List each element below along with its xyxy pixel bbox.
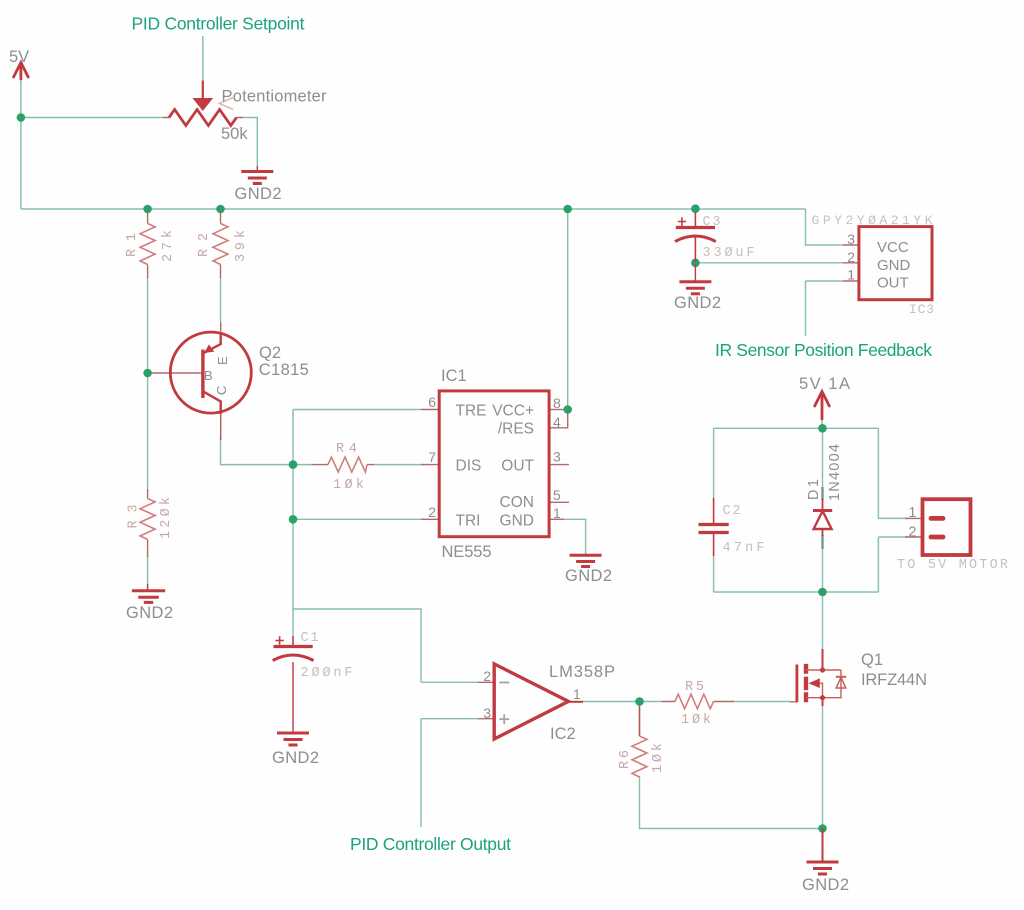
op-amp plus sign <box>499 714 509 724</box>
mosfet Q1 body diode triangle <box>836 677 846 688</box>
svg-text:R3: R3 <box>127 505 142 529</box>
diode D1 triangle <box>814 511 832 529</box>
svg-text:2: 2 <box>483 668 491 684</box>
node Q1 source gnd <box>818 824 827 833</box>
stub pot pins <box>163 117 243 119</box>
stub R5 pins <box>662 701 735 703</box>
svg-text:3: 3 <box>553 449 561 465</box>
wire loop to Q1 drain <box>822 592 824 649</box>
stub R2 pins <box>220 209 222 278</box>
svg-text:R2: R2 <box>197 233 212 257</box>
wire 5V1A to top loop <box>821 418 823 428</box>
wire Q2 collector to node <box>221 437 294 465</box>
wire TRI row <box>293 518 426 520</box>
ground GND2 at Q1 source <box>807 829 839 875</box>
svg-text:C1: C1 <box>301 631 319 646</box>
svg-text:2: 2 <box>847 249 855 265</box>
mosfet Q1 drain link <box>806 670 841 698</box>
wire C1 top corner to opamp column <box>293 609 421 682</box>
resistor R5 10k <box>675 694 714 709</box>
node 5V1A loop <box>818 424 827 433</box>
svg-text:E: E <box>215 356 230 365</box>
stub opamp output <box>569 701 583 703</box>
svg-text:2: 2 <box>908 525 916 541</box>
resistor R2 39k <box>213 224 228 265</box>
mosfet Q1 arrow tail <box>818 683 823 698</box>
wire bottom loop <box>714 591 879 593</box>
svg-text:Q2: Q2 <box>259 344 281 362</box>
wire IC3 OUT down to IR label <box>806 281 844 336</box>
svg-text:OUT: OUT <box>877 275 909 292</box>
mosfet Q1 source dot <box>820 695 825 700</box>
svg-text:GND2: GND2 <box>235 185 282 203</box>
svg-text:C2: C2 <box>723 504 741 519</box>
svg-text:PID Controller Setpoint: PID Controller Setpoint <box>132 14 305 34</box>
connector TO 5V MOTOR box <box>923 499 971 555</box>
svg-text:GND2: GND2 <box>272 749 319 767</box>
stub IC3 pins <box>843 245 859 281</box>
svg-text:R5: R5 <box>685 680 704 695</box>
connector IC3 box <box>859 227 932 300</box>
svg-text:1: 1 <box>553 505 561 521</box>
wire D1 column bottom <box>822 549 824 592</box>
wire motor pin2 down <box>878 537 908 592</box>
supply 5V arrow top-left <box>14 63 29 80</box>
resistor R4 10k <box>328 457 367 472</box>
stub opamp inputs <box>478 682 494 718</box>
wire R2 bottom to Q2 <box>220 277 222 322</box>
svg-text:C3: C3 <box>703 215 721 230</box>
svg-text:12Øk: 12Øk <box>159 497 174 539</box>
svg-text:7: 7 <box>428 449 436 465</box>
transistor Q2 emitter <box>203 332 221 354</box>
node Q2 base <box>143 369 152 378</box>
svg-text:1N4004: 1N4004 <box>827 444 843 501</box>
mosfet Q1 channel bars <box>804 664 808 702</box>
resistor R1 27k <box>140 224 155 265</box>
node 5V/pot <box>17 113 26 122</box>
ground GND2 at C1 <box>277 662 309 745</box>
svg-text:VCC+: VCC+ <box>492 403 534 420</box>
svg-text:Potentiometer: Potentiometer <box>222 88 328 106</box>
wire to opamp pin2 <box>421 681 478 683</box>
capacitor C3 330uF <box>675 212 716 262</box>
wire IC1 pin1 to gnd <box>564 519 586 555</box>
svg-text:LM358P: LM358P <box>549 663 615 681</box>
mosfet Q1 arrow <box>809 678 820 688</box>
stub R1 pins <box>147 209 149 278</box>
svg-text:TRE: TRE <box>456 403 487 420</box>
wire pot right to GND <box>242 118 257 167</box>
svg-text:4: 4 <box>553 414 561 430</box>
svg-text:DIS: DIS <box>456 458 482 475</box>
wire D1 column top <box>822 428 824 488</box>
svg-text:B: B <box>204 368 213 383</box>
node opamp out <box>635 697 644 706</box>
op-amp IC2 triangle <box>494 664 568 739</box>
svg-text:6: 6 <box>428 394 436 410</box>
svg-text:3: 3 <box>847 231 855 247</box>
diode D1 pin stubs <box>821 487 823 549</box>
svg-text:39k: 39k <box>234 230 249 262</box>
stub Q2 collector bottom <box>220 402 222 440</box>
svg-text:3: 3 <box>483 705 491 721</box>
potentiometer wiper triangle <box>193 98 214 111</box>
stub motor pins <box>905 518 923 537</box>
connector motor pin bars <box>931 518 943 537</box>
wire C3 to IC3 GND <box>695 262 843 264</box>
wire right loop to motor pin1 <box>878 428 908 518</box>
transistor Q2 emitter arrow <box>204 344 214 353</box>
svg-text:5V: 5V <box>9 48 29 66</box>
svg-text:1Øk: 1Øk <box>681 713 711 728</box>
svg-text:1: 1 <box>573 686 581 702</box>
svg-text:33ØuF: 33ØuF <box>703 246 755 261</box>
svg-text:TO 5V MOTOR: TO 5V MOTOR <box>897 558 1008 573</box>
svg-text:IC1: IC1 <box>441 367 467 385</box>
node bottom loop <box>818 588 827 597</box>
svg-text:27k: 27k <box>161 230 176 262</box>
svg-text:R1: R1 <box>125 233 140 257</box>
resistor R6 10k <box>632 736 647 777</box>
stub R4 pins <box>312 464 375 466</box>
stub IC1 pin1 <box>549 518 564 520</box>
diode D1 anode wire <box>822 499 824 536</box>
wire R4 right to pin7 <box>373 464 426 466</box>
svg-text:C: C <box>214 386 229 395</box>
wire main 5V horizontal rail <box>21 208 806 210</box>
wire vertical node column <box>292 410 294 610</box>
node R2 top <box>216 205 225 214</box>
ground GND2 at R3 <box>132 584 165 602</box>
stub IC1 pin5 <box>549 501 569 503</box>
stub R6 top <box>639 702 641 737</box>
node C3 bottom <box>691 259 700 268</box>
node R1 top <box>143 205 152 214</box>
svg-text:IRFZ44N: IRFZ44N <box>861 671 927 689</box>
svg-text:C1815: C1815 <box>259 361 309 379</box>
potentiometer outline arrow <box>220 98 234 110</box>
node R4/collector <box>289 460 298 469</box>
svg-text:5V 1A: 5V 1A <box>799 375 850 393</box>
ground GND2 at potentiometer <box>241 166 273 184</box>
svg-text:8: 8 <box>553 395 561 411</box>
wire left loop C2 column <box>713 428 715 592</box>
svg-text:IC3: IC3 <box>909 302 934 317</box>
svg-text:CON: CON <box>500 494 534 511</box>
op-amp minus sign <box>499 682 509 684</box>
capacitor C1 200nF <box>273 636 314 661</box>
wire C1 top stub <box>292 609 294 636</box>
svg-text:GND2: GND2 <box>674 294 721 312</box>
wire Q1 source to gnd node <box>822 705 824 829</box>
stub Q2 base wire <box>148 372 202 374</box>
svg-text:GND2: GND2 <box>126 604 173 622</box>
node rail to pin8 <box>563 205 572 214</box>
svg-text:NE555: NE555 <box>442 543 492 561</box>
mosfet Q1 drain dot <box>820 667 825 672</box>
potentiometer setpoint wire <box>202 36 204 81</box>
svg-text:TRI: TRI <box>456 513 481 530</box>
svg-text:GPY2YØA21YK: GPY2YØA21YK <box>812 213 933 228</box>
transistor Q2 base bar <box>201 350 204 398</box>
node C3 top <box>691 204 700 213</box>
wire 5V vertical <box>20 78 22 209</box>
wire top loop horizontal <box>714 427 879 429</box>
svg-text:50k: 50k <box>221 125 248 143</box>
wire R4 left <box>293 464 312 466</box>
wire R5 to Q1 gate <box>733 701 790 703</box>
svg-text:GND: GND <box>500 513 534 530</box>
stub IC1 left pins <box>421 410 439 520</box>
diode D1 cathode bar <box>813 509 832 512</box>
svg-text:47nF: 47nF <box>723 541 765 556</box>
svg-text:PID Controller Output: PID Controller Output <box>350 834 511 854</box>
svg-text:/RES: /RES <box>498 421 534 438</box>
op IC1 NE555 box <box>439 391 549 537</box>
stub IC1 pin4 link <box>549 410 568 428</box>
svg-text:1: 1 <box>847 267 855 283</box>
svg-text:Q1: Q1 <box>861 651 883 669</box>
mosfet Q1 gate plate <box>796 665 799 703</box>
svg-text:GND: GND <box>877 257 911 274</box>
stub Q1 gate <box>790 701 797 703</box>
wire setpoint rail horizontal <box>21 117 163 119</box>
svg-text:1: 1 <box>908 505 916 521</box>
svg-text:1Øk: 1Øk <box>651 743 666 773</box>
wire R6 bottom to gnd node <box>640 776 823 829</box>
mosfet Q1 source pin <box>822 698 824 706</box>
wire rail to IC3 VCC <box>806 209 844 245</box>
svg-text:GND2: GND2 <box>802 876 849 894</box>
svg-text:D1: D1 <box>806 479 822 500</box>
svg-text:IR Sensor Position Feedback: IR Sensor Position Feedback <box>715 340 932 360</box>
mosfet Q1 body diode bar <box>836 676 846 678</box>
mosfet Q1 drain pin <box>822 649 824 670</box>
svg-text:R4: R4 <box>336 442 357 457</box>
transistor Q2 collector <box>203 391 221 414</box>
node pin8/pin4 <box>563 405 572 414</box>
wire opamp pin3 column to output label <box>421 719 478 827</box>
resistor R3 120k <box>140 499 155 540</box>
capacitor C2 47nF <box>699 498 729 556</box>
wire R1 bottom to base node to R3 <box>147 277 149 585</box>
potentiometer wiper stem <box>202 80 204 99</box>
wire opamp out to R5 <box>582 701 662 703</box>
svg-text:IC2: IC2 <box>550 725 576 743</box>
stub IC1 pin3 <box>549 464 569 466</box>
svg-text:2: 2 <box>428 504 436 520</box>
svg-text:GND2: GND2 <box>565 567 612 585</box>
stub R3 pins <box>147 489 149 557</box>
svg-text:1Øk: 1Øk <box>333 478 364 493</box>
wire node to IC1 pin6 <box>293 409 421 411</box>
supply 5V 1A arrow <box>815 392 830 420</box>
svg-text:2ØØnF: 2ØØnF <box>301 666 353 681</box>
ground GND2 at C3 <box>679 264 711 294</box>
wire rail down to IC1 pin8 <box>567 209 569 406</box>
svg-text:VCC: VCC <box>877 239 909 256</box>
svg-text:5: 5 <box>553 487 561 503</box>
svg-text:OUT: OUT <box>501 458 534 475</box>
node TRI <box>289 515 298 524</box>
transistor Q2 circle <box>170 332 251 413</box>
stub IC1 pin8 <box>549 409 564 411</box>
ground GND2 at IC1 pin1 <box>570 555 602 566</box>
potentiometer 50k zigzag <box>169 110 237 126</box>
stub Q2 emitter top <box>220 322 222 344</box>
